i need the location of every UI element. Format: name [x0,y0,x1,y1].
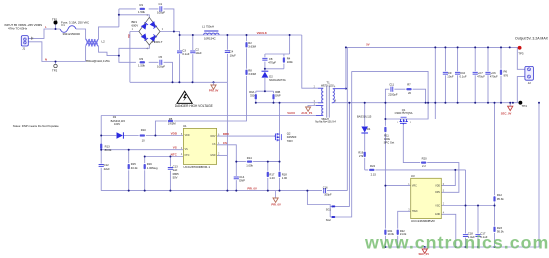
connector J1 [21,36,33,46]
node VOUT C6 [487,46,489,48]
svg-text:R10: R10 [141,128,147,132]
node SG1 riser tap [348,102,350,104]
svg-text:MURA160T3G: MURA160T3G [269,79,285,82]
wire R6 drop [500,47,502,102]
svg-text:2.15: 2.15 [371,172,377,176]
wire NTC line [145,156,184,158]
wire clamp R4 leg [283,54,285,69]
bridge rectifier BR1 [139,17,160,45]
ground flag PRI_0V on power bus [211,82,216,89]
resistor R7 [407,88,412,90]
svg-text:470uF: 470uF [490,75,498,79]
wire R9A leg [255,91,257,103]
svg-text:100V: 100V [114,122,120,126]
svg-text:R9B: R9B [275,90,280,94]
test point TP1 [54,21,58,25]
svg-text:27k: 27k [359,154,364,158]
diode D4 [361,127,368,134]
resistor R3 [140,61,145,63]
svg-text:1.00: 1.00 [282,176,288,180]
node SG1 electrode [332,205,334,207]
svg-text:50V: 50V [173,175,178,179]
node sec top tap [345,88,347,90]
transistor Q1 [400,117,408,124]
node switch sec D4 tap [364,102,366,104]
resistor R23 [494,227,496,232]
wire primary switch node to transformer bottom [256,102,318,104]
svg-text:WE75-1102: WE75-1102 [321,85,334,88]
wire Q2 drain-source through [279,103,281,162]
node sig gnd C13 [169,190,171,192]
wire Q1 drain-source through [385,103,428,119]
svg-text:D4N50F: D4N50F [287,135,297,139]
svg-text:J1: J1 [22,46,25,50]
capacitor C16 [324,188,326,193]
wire feedback divider R12 R23 [494,103,496,247]
node SG2 electrode [332,216,334,218]
svg-text:U3: U3 [411,174,415,178]
svg-text:1.50k: 1.50k [138,63,146,67]
svg-text:2200pF: 2200pF [388,92,398,96]
svg-text:R11: R11 [384,134,389,138]
wire R15 leg [128,150,130,191]
node secgnd flag [509,102,511,104]
wire secondary ground right riser [538,103,540,247]
svg-text:www.cntronics.com: www.cntronics.com [364,232,549,252]
svg-text:R16: R16 [147,162,153,166]
wire AC1 branch to bridge top terminal [119,15,149,18]
node VSC R12 [494,205,496,207]
node snubber right leg [425,102,427,104]
wire U3 GND leg [441,214,456,247]
resistor R8 [246,70,248,75]
svg-text:0.1uF: 0.1uF [182,52,189,56]
wire VAUX run from left bracket to aux winding [101,115,316,117]
node gnd bus C2 [192,81,194,83]
node sig gnd R16 [144,190,146,192]
node secgnd right riser [538,102,540,104]
node VOUT sense [509,46,511,48]
common mode choke L2 [86,39,98,47]
svg-text:DRV: DRV [435,192,440,194]
svg-text:470pF: 470pF [268,61,276,65]
svg-text:Notes: DNP means Do Not Popula: Notes: DNP means Do Not Populate [13,124,59,128]
svg-text:100k: 100k [384,137,391,141]
wire SG2 secondary line [335,71,352,217]
svg-text:R5: R5 [169,117,173,121]
node sig gnd C14 [235,190,237,192]
test point TP4 [517,101,522,105]
svg-text:5V: 5V [366,42,370,46]
wire C18 long leg from VDD line [465,170,467,234]
svg-text:40.2k: 40.2k [131,166,138,170]
wire Q1 gate chain through R20 to U3 DRV [403,125,459,193]
capacitor C4 [225,51,230,53]
wire Q1 drain branch [384,103,386,119]
svg-text:C16: C16 [323,186,328,190]
svg-text:D2: D2 [269,74,273,78]
wire R11 chain to U3 VRC [385,119,410,186]
test point TP2 [54,64,57,67]
wire VOUT rail [346,46,517,48]
svg-text:C10: C10 [460,71,466,75]
svg-text:R2: R2 [248,41,252,45]
wire U1 DRV line to Q2 gate [217,135,275,137]
resistor R14 [247,161,252,163]
resistor R4 [283,58,285,63]
wire C16 riser to VOUT rail [346,47,348,190]
svg-text:22uF: 22uF [104,167,111,171]
node D2 anode tie [264,90,266,92]
node secgnd riser [434,102,436,104]
svg-text:R17: R17 [269,172,275,176]
wire primary power ground bus [130,81,228,83]
node clamp top tie [289,34,291,36]
wire J2 bottom pin bracket [517,77,525,103]
svg-text:VBULK: VBULK [257,31,268,35]
node secgnd C7 [474,102,476,104]
svg-text:Np:Na:Ns=101:9:4: Np:Na:Ns=101:9:4 [315,120,336,123]
node secgnd C6 [487,102,489,104]
resistor R5 [168,120,173,122]
svg-text:700V: 700V [287,139,293,143]
wire C4 drop [226,35,228,82]
svg-text:1.20: 1.20 [269,176,275,180]
svg-text:UCC24636DBVR: UCC24636DBVR [411,219,436,223]
wire R3-C5 snubber run [119,56,173,83]
svg-text:C1: C1 [159,2,163,6]
node switch sec snubber tap [384,102,386,104]
wire C13 leg [169,157,171,191]
svg-text:330: 330 [250,93,255,97]
node sig gnd R17 [267,190,269,192]
wire C6 drop [487,47,489,102]
svg-text:R23: R23 [497,226,503,230]
svg-text:C2: C2 [195,47,199,51]
resistor R13 [100,144,102,149]
node sec bus C17 [477,246,479,248]
svg-text:R9A: R9A [249,90,254,94]
node Q1 source corner [427,102,429,104]
node DC+ C4 tap [226,34,228,36]
capacitor C8 [262,58,267,60]
wire startup divider chain [155,35,246,136]
svg-text:DNP: DNP [275,93,281,97]
svg-text:R4: R4 [287,57,291,61]
fuse F1 [60,26,76,33]
wire bottom rail riser to choke bottom-left [85,46,87,62]
node gnd bus C3 [178,81,180,83]
node clamp bottom tie [264,68,266,70]
node VDD line left tie [100,135,102,137]
svg-text:SG2: SG2 [326,219,332,222]
capacitor C3 [177,51,182,53]
node VSC C17 [477,205,479,207]
svg-text:SEC_0V: SEC_0V [419,252,430,256]
svg-text:F1: F1 [62,23,66,27]
svg-text:1uF: 1uF [173,168,178,172]
resistor R1 [140,8,145,10]
node AC2 junction [118,55,120,57]
node switch node Q2 drain [279,102,281,104]
svg-text:600V: 600V [132,23,139,27]
spark gap SG2 [332,216,336,218]
node sig gnd R15 [128,190,130,192]
svg-text:DRV: DRV [211,136,216,138]
wire clamp top line [265,35,290,54]
wire C9 drop [444,47,446,102]
resistor R6 [500,70,502,75]
svg-text:TP4: TP4 [522,104,528,108]
svg-text:NTC: NTC [185,155,190,157]
wire R21 leg below VRC [384,186,386,247]
node sec bus arrow [424,246,426,248]
wire fuse output to choke top-left [76,29,86,40]
wire C3 drop [179,35,181,82]
svg-text:D3: D3 [113,115,117,119]
svg-text:+C6: +C6 [491,71,497,75]
svg-text:3.63M: 3.63M [248,72,256,76]
svg-text:D4: D4 [367,127,371,131]
svg-text:VDD: VDD [171,132,178,136]
svg-text:10: 10 [142,138,146,142]
resistor R10 [140,135,145,137]
svg-text:AC: AC [127,33,130,38]
svg-text:R14: R14 [247,156,253,160]
node VOUT C7 [474,46,476,48]
svg-text:C13: C13 [173,165,179,169]
wire secondary switch line [333,102,436,104]
svg-text:Output 5V, 3.2A MAX: Output 5V, 3.2A MAX [515,37,549,41]
wire R24 run to U3 VDD [365,170,466,186]
spark gap SG1 [332,206,336,208]
svg-text:20: 20 [408,91,412,95]
svg-text:1.00Meg: 1.00Meg [147,166,158,170]
wire R16 leg [144,157,146,191]
capacitor C13 [168,167,173,169]
node secgnd fb [494,102,496,104]
svg-text:10uF: 10uF [447,75,454,79]
wire C12 leg on left bracket [100,150,102,191]
svg-text:0.1uF: 0.1uF [460,75,467,79]
node VS R15 tap [128,149,130,151]
op-amp U3 sync rect box [411,178,442,218]
wire R13 leg on left bracket [100,136,102,150]
test point TP3 [517,46,521,50]
svg-text:Q2: Q2 [287,132,291,136]
svg-text:R7: R7 [407,83,411,87]
svg-text:R6: R6 [504,70,508,74]
wire U3 TBLK leg with R22 [398,211,411,247]
wire secondary ground bus [384,246,540,248]
svg-text:R24: R24 [370,164,376,168]
svg-text:976: 976 [504,73,509,77]
wire D4 chain from switch line [364,103,366,170]
wire spark gap primary bracket [307,191,331,217]
capacitor C5 [160,60,162,65]
wire aux winding top to PRI_0V flag [308,106,316,108]
svg-text:L2: L2 [102,40,106,44]
resistor R22 [397,230,399,235]
capacitor C17 [475,235,480,237]
wire DC+ rail main run [180,34,302,36]
resistor R15 [128,164,130,169]
svg-text:DNP: DNP [239,178,245,182]
resistor R2 [246,42,248,47]
node gnd bus R3C5 [172,81,174,83]
svg-text:C5: C5 [159,55,163,59]
svg-text:CS: CS [223,141,227,145]
wire D2 anode to R9 pair top [256,78,274,91]
svg-text:SEC_0V: SEC_0V [501,112,512,116]
node VDD line drop [454,169,456,171]
svg-text:VS: VS [173,146,177,150]
connector J2 [525,66,534,80]
svg-text:C8: C8 [269,57,273,61]
diode D2 [262,71,269,77]
capacitor C7 [473,72,478,74]
svg-text:100pF: 100pF [157,11,165,15]
ground flag SEC_0V bottom [422,247,427,253]
node gnd bus flag [213,81,215,83]
wire C2 drop [192,35,194,82]
wire bridge left DC- down [130,32,139,83]
wire sync outer loop [352,71,428,102]
svg-text:850uH@1kHz,0.25A: 850uH@1kHz,0.25A [86,59,110,63]
node sig gnd R18 [279,190,281,192]
svg-text:95.3k: 95.3k [497,197,504,201]
svg-text:BAS316,115: BAS316,115 [111,119,126,123]
svg-text:R3: R3 [140,57,144,61]
resistor R16 [144,164,146,169]
node DC+ C3 tap [179,34,181,36]
node NTC C13 tap [169,156,171,158]
node sig gnd spark tap [306,190,308,192]
resistor R21 [385,230,387,235]
svg-text:VDD: VDD [435,185,440,187]
svg-text:C12: C12 [104,163,110,167]
wire output ground rail [435,102,517,104]
capacitor C1 [160,6,162,11]
capacitor C18 [463,235,468,237]
svg-text:PRI_0V: PRI_0V [247,187,257,191]
svg-text:TP2: TP2 [52,69,58,73]
wire C7 drop [474,47,476,102]
resistor R20 [421,162,426,164]
svg-text:+C7: +C7 [478,71,484,75]
capacitor C2 [190,51,195,53]
svg-text:R8: R8 [248,69,252,73]
svg-text:PRI_0V: PRI_0V [271,202,281,206]
svg-text:VRC: VRC [412,185,417,187]
svg-text:J2: J2 [528,81,531,85]
wire C18 lower leg [465,238,467,247]
wire R9B leg [273,91,275,103]
node AC1 snubber tap [118,14,120,16]
ground flag PRI_0V below signal bus [273,191,278,203]
diode D3 [117,132,124,138]
wire choke bottom-right to AC2 node [99,46,119,56]
svg-text:SG1: SG1 [326,208,332,211]
node CS C14 tap [235,161,237,163]
svg-text:47Hz TO 63Hz: 47Hz TO 63Hz [8,27,28,31]
wire DC+ rail from bridge to C3 jog [160,32,180,36]
svg-text:0805: 0805 [173,172,180,176]
wire C17 leg [477,206,479,248]
svg-text:R12: R12 [497,193,503,197]
node Q1 drain R11 tap [384,118,386,120]
warning triangle [177,91,192,103]
wire left bracket vertical VAUX down to VDD line [100,116,102,136]
svg-text:2.2: 2.2 [422,164,426,168]
svg-text:DRV: DRV [223,132,229,136]
svg-text:SPC Set: SPC Set [384,140,395,144]
node secgnd C9 [444,102,446,104]
wire TP1 stub [55,24,57,29]
svg-text:C14: C14 [239,175,245,179]
svg-text:R20: R20 [422,157,428,161]
node sec bus R23 [494,246,496,248]
ground flag PRI_0V on aux [306,107,311,111]
svg-text:VS: VS [185,149,189,151]
node DC+ snubber junction [173,31,175,33]
node DC+ C2 tap [192,34,194,36]
capacitor C6 [485,72,490,74]
node sec bus U3 gnd [455,246,457,248]
node AC1 TP1 junction [55,28,57,30]
node R17 tap [267,161,269,163]
svg-text:3.63M: 3.63M [248,45,256,49]
wire output bank plain vertical [434,47,436,119]
wire AC neutral from J1 pin2 to bottom rail [28,42,85,62]
svg-text:TBLK: TBLK [412,211,418,213]
node sig gnd bulk return [226,190,228,192]
svg-text:1.00k: 1.00k [246,164,253,168]
wire sync snubber loop [385,89,425,103]
svg-text:N: N [45,57,47,61]
svg-text:10uF: 10uF [230,53,237,57]
node AC neutral TP2 junction [55,61,57,63]
node secgnd C10 [457,102,459,104]
node switch node R9B [273,102,275,104]
svg-text:C9: C9 [448,71,452,75]
transformer T1 [316,86,346,118]
wire U1 CS line [217,145,280,162]
svg-text:C3: C3 [182,48,186,52]
wire AC2 node to bridge bottom terminal [119,45,149,56]
svg-text:100pF: 100pF [324,192,332,196]
svg-text:U1: U1 [183,124,187,128]
capacitor C10 [455,72,460,74]
node Q2 source sense [279,161,281,163]
svg-text:BAS316,115: BAS316,115 [357,115,372,119]
node VOUT rail riser [434,46,436,48]
svg-text:R13: R13 [105,145,111,149]
resistor R12 [494,196,496,201]
svg-text:HD06-T: HD06-T [153,40,163,44]
svg-text:UCC28700DBVR-1: UCC28700DBVR-1 [183,165,210,169]
resistor R11 [385,127,387,132]
svg-text:100pF: 100pF [157,64,165,68]
svg-text:VDD: VDD [185,135,190,137]
node VOUT R6 [500,46,502,48]
wire primary signal ground bus [101,190,322,192]
wire C14 leg [235,162,237,191]
wire AC1 vertical riser to snubber rail [118,9,120,27]
svg-text:CSD17577Q5A: CSD17577Q5A [395,111,413,115]
node VOUT C9 [444,46,446,48]
wire VOUT corner to J2 top pin [517,47,525,69]
